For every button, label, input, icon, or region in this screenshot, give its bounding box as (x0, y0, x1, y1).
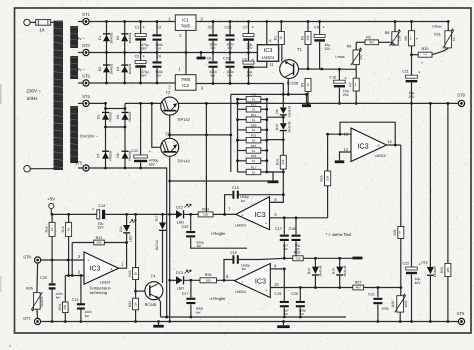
svg-text:D6: D6 (116, 115, 120, 119)
capacitor C22 10u (403, 103, 422, 323)
svg-text:15V/30V ~: 15V/30V ~ (79, 134, 98, 139)
svg-text:R24: R24 (276, 159, 280, 165)
svg-text:BAT43: BAT43 (155, 240, 159, 250)
capacitor C15 1500p (223, 186, 283, 216)
transformer secondary winding 9V-2 (70, 56, 78, 79)
resistor R25 10k (320, 134, 331, 218)
diode D8 P600 (116, 150, 132, 160)
resistor R16 (246, 154, 261, 163)
wire pin10 (270, 282, 353, 289)
ground D14 D15 (353, 257, 363, 260)
diode D9 1N4148 (275, 94, 292, 117)
svg-text:1k: 1k (252, 128, 256, 132)
wire pin6 (270, 197, 283, 203)
svg-text:LM324: LM324 (262, 55, 275, 60)
svg-text:1k: 1k (252, 139, 256, 143)
label 230V 50Hz (26, 88, 41, 101)
label Imax (335, 55, 344, 59)
svg-text:R3: R3 (300, 83, 304, 87)
resistor R33 100 (198, 207, 236, 217)
wire T3 emitter sense (170, 180, 271, 182)
resistor R30 (246, 123, 261, 132)
svg-text:14: 14 (387, 139, 392, 144)
capacitor C21 100p (368, 286, 389, 323)
svg-text:10k: 10k (326, 175, 330, 181)
svg-text:R21: R21 (96, 236, 103, 240)
svg-text:C26: C26 (182, 225, 189, 229)
fuse F1 1A (30, 20, 53, 33)
svg-text:ST4: ST4 (82, 94, 90, 99)
svg-text:250: 250 (359, 54, 363, 60)
wire bridge column 2 (104, 103, 126, 169)
transformer primary winding (54, 21, 64, 171)
svg-text:C15: C15 (232, 186, 239, 190)
svg-text:D14: D14 (307, 268, 311, 274)
svg-text:9V ~: 9V ~ (77, 36, 86, 41)
trimmer R6 (347, 42, 363, 69)
diode D1 1N4001 (98, 32, 114, 43)
svg-text:D5: D5 (97, 115, 101, 119)
capacitor C19 4u7 (274, 292, 289, 318)
wire -5V rail from IC2 (196, 84, 283, 95)
op-amp IC3 i-Regler (235, 197, 269, 230)
svg-text:C27: C27 (182, 292, 189, 296)
op-amp IC3 power (344, 128, 393, 162)
capacitor C16 1500p (224, 251, 293, 280)
resistor R20 (58, 276, 68, 323)
svg-text:7905: 7905 (181, 77, 191, 82)
svg-text:LM324: LM324 (235, 223, 246, 227)
transistor T3 TIP142 (161, 132, 191, 164)
svg-text:P600G: P600G (128, 111, 132, 121)
svg-text:LM324: LM324 (375, 154, 386, 158)
resistor R29 (393, 227, 404, 296)
svg-text:ST2: ST2 (82, 43, 90, 48)
svg-text:100: 100 (206, 279, 211, 283)
capacitor C17 4u7 (275, 218, 289, 258)
svg-text:1k: 1k (252, 170, 256, 174)
svg-text:7805: 7805 (181, 23, 191, 28)
wire +5V rail (51, 213, 176, 216)
svg-text:1N4148: 1N4148 (343, 265, 347, 276)
diode D17 BAT43 (154, 214, 166, 250)
svg-text:D8: D8 (116, 153, 120, 157)
svg-text:+: + (92, 207, 95, 212)
svg-text:10k: 10k (63, 304, 67, 310)
mains terminal top (24, 19, 30, 25)
capacitor C12 4700u (131, 102, 158, 168)
diode D13 LED (168, 270, 200, 291)
svg-text:R13: R13 (251, 103, 257, 107)
svg-text:C22: C22 (403, 261, 410, 265)
svg-text:IC2: IC2 (182, 83, 189, 88)
svg-text:R25: R25 (320, 175, 324, 181)
terminal ST8 (457, 93, 465, 107)
svg-text:R11: R11 (434, 33, 441, 37)
transformer secondary winding 9V-1 (70, 26, 78, 48)
wire T3 base link (150, 102, 161, 147)
wire T4 collector (162, 232, 164, 283)
svg-text:C14: C14 (98, 204, 105, 208)
svg-text:R8: R8 (385, 31, 390, 35)
svg-text:P600G: P600G (109, 150, 113, 160)
wire D column to pin6 (270, 172, 285, 202)
svg-text:D9: D9 (275, 109, 279, 113)
wire pin9 (270, 263, 285, 270)
wire bridge bottom (106, 167, 169, 319)
svg-text:D17: D17 (154, 215, 158, 221)
transformer secondary winding 15V/30V (70, 106, 78, 163)
svg-text:R20: R20 (58, 304, 62, 310)
svg-text:SAA965: SAA965 (40, 296, 44, 307)
svg-text:R34: R34 (205, 273, 212, 277)
svg-text:1k: 1k (50, 227, 54, 231)
wire pin5 (270, 212, 328, 219)
svg-text:1A: 1A (39, 27, 44, 32)
diode D7 P600 (97, 150, 113, 160)
svg-text:i-Regler: i-Regler (211, 231, 226, 236)
wire bottom rail B (41, 321, 459, 323)
svg-text:C17: C17 (275, 227, 282, 231)
ground center bottom (277, 320, 290, 328)
diode D15 1N4148 (332, 258, 347, 287)
svg-text:1k: 1k (252, 98, 256, 102)
diode D16 1N4002 (421, 102, 437, 323)
svg-text:LED: LED (177, 287, 185, 291)
svg-text:ST8: ST8 (457, 93, 465, 98)
wire column R29/R28 (400, 145, 402, 227)
wire C20 col (299, 288, 301, 301)
capacitor C3 100n (153, 20, 164, 54)
svg-text:R6: R6 (347, 45, 352, 49)
capacitor C9 10u (314, 20, 331, 69)
terminal ST5 (75, 161, 89, 171)
wire T1 base rail (299, 67, 357, 70)
svg-text:C24: C24 (225, 25, 232, 29)
svg-text:R1: R1 (274, 36, 278, 40)
trimmer R11 1k (432, 20, 456, 55)
svg-text:C5: C5 (208, 25, 213, 29)
svg-text:22k: 22k (281, 159, 285, 165)
wire T1 collector (287, 79, 290, 96)
svg-text:R17: R17 (251, 165, 257, 169)
svg-text:R31: R31 (251, 134, 257, 138)
wire pin9 col down (283, 269, 285, 301)
svg-text:IC1: IC1 (182, 17, 189, 22)
resistor R10 (410, 37, 432, 66)
svg-text:R33: R33 (202, 207, 209, 211)
wire ST5 to bridge (89, 167, 105, 169)
resistor R19 (61, 214, 72, 275)
capacitor C5 100n (208, 20, 218, 54)
wire IC3 pin 11 (252, 61, 274, 67)
svg-text:ST1: ST1 (82, 12, 90, 17)
svg-text:16V: 16V (140, 47, 147, 51)
resistor R31 (246, 134, 261, 143)
label Temperatur-sicherung (90, 285, 112, 295)
regulator IC1 7805 (168, 15, 203, 38)
capacitor C23 100n (223, 53, 234, 85)
+5V supply node (47, 196, 55, 214)
svg-text:1N4001: 1N4001 (110, 32, 114, 43)
svg-text:R19: R19 (61, 226, 65, 232)
transistor T4 BC548 (136, 274, 163, 307)
scan mark bottom left (9, 344, 12, 349)
regulator IC2 7905 (168, 67, 204, 91)
capacitor C11 10u (402, 58, 421, 105)
capacitor C27 500p (182, 280, 204, 318)
svg-text:P600G: P600G (109, 111, 113, 121)
trimmer R28 100k (391, 293, 408, 323)
svg-text:R7: R7 (348, 82, 352, 86)
svg-text:R27: R27 (355, 281, 362, 285)
resistor R2 (300, 20, 311, 69)
resistor R14 (246, 113, 261, 122)
wire output pin1 (119, 241, 128, 268)
svg-text:C3: C3 (156, 25, 161, 29)
svg-text:1N4001: 1N4001 (128, 32, 132, 43)
resistor R23 1k (128, 298, 139, 323)
svg-text:T2: T2 (166, 90, 171, 95)
op-amp IC3 temperature (84, 252, 124, 284)
svg-text:D12: D12 (176, 205, 183, 209)
wire IC3 pin 4 to +5V (265, 20, 272, 45)
label siehe Text (326, 232, 353, 237)
op-amp IC3 u-Regler (226, 264, 270, 298)
svg-text:R30: R30 (251, 123, 257, 127)
capacitor C2 470u (135, 53, 149, 85)
svg-text:D7: D7 (97, 153, 101, 157)
svg-text:LED: LED (177, 221, 185, 225)
svg-text:D10: D10 (275, 124, 279, 130)
diode D6 P600 (116, 111, 132, 121)
svg-text:9V ~: 9V ~ (77, 67, 86, 72)
wire base drive y135 (170, 134, 231, 137)
svg-text:T1: T1 (297, 47, 303, 52)
resistor R1 (274, 20, 285, 62)
svg-text:Umax: Umax (432, 25, 442, 29)
capacitor C1 470u (135, 20, 149, 54)
svg-text:C19: C19 (274, 292, 281, 296)
svg-text:C25: C25 (40, 276, 47, 280)
capacitor C20 100p (291, 292, 306, 318)
svg-text:C12: C12 (131, 149, 138, 153)
wire +rail from ST1 to IC1 (89, 21, 175, 23)
scan smudge left edge upper (0, 84, 2, 104)
mains terminal bottom (24, 166, 54, 172)
wire pin13 input (326, 133, 351, 136)
diode D4 1N4001 (116, 63, 132, 74)
svg-text:63V: 63V (149, 162, 156, 166)
svg-text:D11: D11 (119, 226, 123, 232)
resistor R12 (246, 93, 261, 102)
resistor R17 (246, 165, 261, 174)
svg-text:C18: C18 (289, 227, 296, 231)
resistor ladder bus (229, 93, 308, 173)
svg-text:18k: 18k (446, 267, 450, 273)
capacitor C6 100n (207, 53, 218, 85)
svg-text:11: 11 (269, 62, 274, 67)
svg-text:1k: 1k (67, 227, 71, 231)
terminal ST9 (457, 311, 465, 325)
svg-text:25V: 25V (324, 47, 331, 51)
wire T2-T3 stack (168, 115, 171, 139)
svg-text:C11: C11 (402, 70, 409, 74)
terminal ST6 (23, 254, 84, 263)
svg-text:1N4001: 1N4001 (110, 63, 114, 74)
svg-text:ST5: ST5 (75, 161, 83, 166)
svg-text:100p: 100p (381, 307, 389, 311)
svg-text:*: * (421, 61, 423, 66)
svg-text:I max: I max (335, 55, 344, 59)
diode D11 LED (119, 214, 136, 242)
label 15V/30V winding (79, 134, 98, 139)
terminal ST4 (78, 94, 91, 107)
svg-text:LM324: LM324 (100, 280, 111, 284)
svg-text:sicherung: sicherung (90, 290, 108, 295)
svg-text:25V: 25V (246, 73, 253, 77)
svg-text:1k: 1k (252, 159, 256, 163)
svg-text:16V: 16V (140, 74, 147, 78)
svg-text:1N4148: 1N4148 (288, 106, 292, 117)
ground top of diode column (302, 93, 311, 107)
svg-text:IC3: IC3 (357, 141, 368, 150)
resistor R22 1k (128, 268, 139, 299)
trimmer R8 10k (385, 20, 402, 46)
resistor R18 (44, 214, 55, 260)
wire +5V rail from IC1 to right (196, 21, 448, 23)
diode D3 1N4001 (116, 32, 132, 43)
svg-text:C13: C13 (72, 298, 79, 302)
wire bridge column 1 (104, 102, 107, 169)
capacitor C26 500p (182, 214, 247, 248)
wire pin 2 input (65, 269, 84, 277)
capacitor C7 10u (243, 20, 254, 54)
svg-text:25V: 25V (343, 93, 350, 97)
ground mid rail (197, 51, 206, 59)
svg-text:ST6: ST6 (23, 254, 31, 259)
label 9V winding 1 (77, 36, 86, 41)
resistor R9 (404, 20, 415, 53)
svg-text:D4: D4 (116, 67, 120, 71)
op-amp supply box IC3 LM324 (257, 45, 278, 62)
diode D12 LED (170, 204, 199, 225)
svg-text:1k: 1k (134, 272, 138, 276)
svg-text:R10: R10 (422, 47, 429, 51)
svg-text:1N4148: 1N4148 (288, 121, 292, 132)
wire ladder tap 3 (267, 116, 285, 119)
wire feedback loop (340, 122, 395, 145)
svg-text:BC548: BC548 (145, 303, 157, 307)
svg-text:1k: 1k (306, 83, 310, 87)
label i-Regler (211, 231, 226, 236)
diode D5 P600 (97, 111, 113, 121)
label u-Regler (210, 296, 227, 301)
svg-text:25V: 25V (408, 95, 415, 99)
svg-text:R26: R26 (294, 251, 301, 255)
svg-text:ST3: ST3 (82, 73, 90, 78)
label 9V winding 2 (77, 67, 86, 72)
wire IC1 to IC2 ground (185, 30, 188, 74)
wire mid rail from ST2 (89, 52, 257, 54)
label pin 3 (78, 254, 81, 259)
capacitor C10 10u (329, 69, 349, 105)
svg-text:D3: D3 (116, 36, 120, 40)
svg-text:1N4001: 1N4001 (128, 63, 132, 74)
svg-text:50Hz: 50Hz (27, 96, 38, 101)
svg-text:+5V: +5V (47, 196, 55, 201)
resistor R21 20k (72, 236, 126, 276)
svg-text:1k: 1k (452, 37, 456, 41)
svg-text:IC3: IC3 (90, 266, 101, 273)
svg-text:25V: 25V (97, 225, 104, 229)
svg-text:C16: C16 (230, 251, 237, 255)
resistor R26 22k (293, 251, 303, 261)
svg-text:C4: C4 (156, 55, 161, 59)
wire ladder tap 6 (267, 138, 285, 141)
scan smudge left edge lower (0, 276, 1, 292)
svg-text:1N4002: 1N4002 (433, 266, 437, 277)
resistor R30 18k (440, 102, 451, 323)
svg-text:D2: D2 (98, 67, 102, 71)
resistor R13 (246, 103, 261, 112)
svg-text:10: 10 (274, 282, 279, 287)
svg-text:R2: R2 (300, 36, 304, 40)
capacitor C14 10u (92, 204, 106, 229)
terminal ST1 (78, 12, 91, 25)
svg-text:C9: C9 (314, 25, 319, 29)
resistor R7 (348, 69, 359, 105)
resistor R34 100 (200, 273, 234, 283)
svg-text:4k7: 4k7 (356, 286, 361, 290)
svg-text:10k: 10k (306, 35, 310, 41)
svg-text:R23: R23 (128, 301, 132, 307)
wire T4 emitter (158, 298, 160, 317)
svg-text:R5: R5 (366, 36, 371, 40)
diode D2 1N4001 (98, 63, 114, 74)
wire rectifier column 1 (105, 20, 108, 84)
capacitor C25 100n (40, 260, 63, 323)
svg-text:ST7: ST7 (23, 316, 31, 321)
svg-text:C6: C6 (207, 57, 212, 61)
svg-text:1k: 1k (134, 302, 138, 306)
svg-text:C21: C21 (368, 292, 375, 296)
svg-text:1k: 1k (279, 36, 283, 40)
diode D14 1N4148 (307, 258, 322, 287)
svg-text:R14: R14 (251, 113, 257, 117)
terminal ST2 (78, 43, 91, 55)
resistor R27 4k7 (353, 281, 401, 290)
svg-text:LM324: LM324 (235, 290, 246, 294)
svg-text:u-Regler: u-Regler (210, 296, 227, 301)
svg-text:25V: 25V (246, 46, 253, 50)
svg-text:C1: C1 (135, 25, 140, 29)
svg-text:40V: 40V (414, 281, 421, 285)
resistor R5 4k7 (356, 36, 390, 45)
svg-text:R22: R22 (128, 270, 132, 276)
transistor T2 TIP142 (161, 90, 191, 122)
svg-text:R9: R9 (404, 36, 408, 40)
ground T4 (153, 320, 164, 327)
svg-text:C20: C20 (291, 292, 298, 296)
svg-text:R28: R28 (391, 301, 395, 307)
resistor R15 (246, 144, 261, 153)
svg-text:D13: D13 (176, 271, 183, 275)
wire ST4 to bridge (89, 102, 105, 104)
capacitor C18 100p (289, 216, 301, 255)
wire R21 col to R22 (135, 214, 137, 267)
capacitor C4 100n (153, 53, 164, 85)
